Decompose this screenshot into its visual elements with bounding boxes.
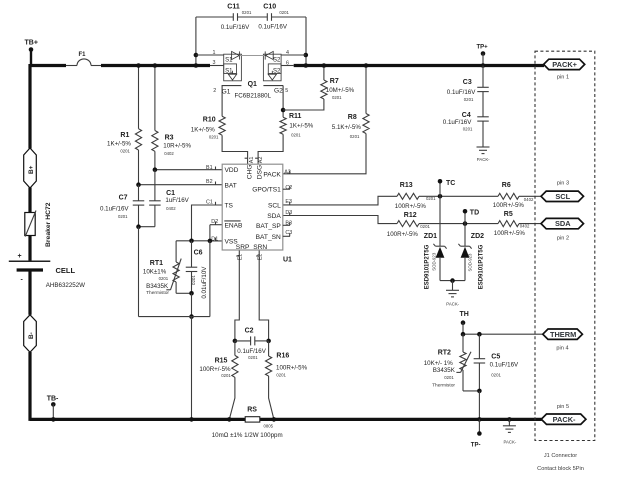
svg-text:C10: C10 (263, 4, 276, 11)
svg-text:GPO/TS1: GPO/TS1 (252, 186, 281, 193)
svg-text:2: 2 (213, 88, 216, 94)
svg-text:R1: R1 (120, 132, 129, 139)
svg-text:SRP: SRP (236, 244, 250, 251)
svg-text:100R+/-5%: 100R+/-5% (199, 366, 231, 373)
svg-text:C3: C3 (463, 79, 472, 86)
svg-text:pin 2: pin 2 (557, 235, 569, 241)
svg-text:100R+/-5%: 100R+/-5% (494, 230, 526, 237)
svg-text:R15: R15 (215, 358, 228, 365)
svg-text:S1: S1 (225, 68, 233, 74)
svg-text:SOD-923: SOD-923 (467, 253, 472, 272)
svg-text:10R+/-5%: 10R+/-5% (163, 143, 191, 150)
svg-text:C4: C4 (462, 112, 471, 119)
svg-text:10mΩ ±1% 1/2W 100ppm: 10mΩ ±1% 1/2W 100ppm (212, 432, 283, 439)
svg-text:PACK+: PACK+ (552, 60, 577, 69)
svg-text:pin 3: pin 3 (557, 180, 569, 186)
svg-text:R13: R13 (400, 182, 413, 189)
svg-text:R8: R8 (348, 114, 357, 121)
svg-text:ZD2: ZD2 (471, 233, 484, 240)
svg-text:RT1: RT1 (150, 260, 163, 267)
svg-text:R11: R11 (289, 113, 302, 120)
svg-text:PACK: PACK (263, 171, 281, 178)
svg-text:PACK-: PACK- (477, 157, 490, 162)
svg-text:0201: 0201 (248, 355, 258, 360)
svg-text:10K+/- 1%: 10K+/- 1% (424, 360, 454, 367)
svg-text:F1: F1 (79, 52, 87, 58)
svg-text:PACK-: PACK- (504, 439, 517, 444)
svg-text:B3435K: B3435K (433, 367, 456, 374)
svg-text:0201: 0201 (350, 134, 360, 139)
svg-text:0805: 0805 (264, 423, 274, 428)
svg-text:E1: E1 (237, 254, 243, 261)
svg-text:B2: B2 (206, 179, 213, 185)
svg-text:TC: TC (446, 180, 455, 187)
svg-text:Breaker HC72: Breaker HC72 (45, 202, 52, 247)
svg-text:0201: 0201 (291, 132, 301, 137)
svg-text:SCL: SCL (268, 202, 281, 209)
svg-text:0201: 0201 (242, 10, 252, 15)
svg-text:0201: 0201 (209, 134, 219, 139)
svg-text:C6: C6 (194, 249, 203, 256)
svg-text:SCL: SCL (555, 192, 570, 201)
svg-text:VDD: VDD (225, 167, 239, 174)
svg-text:D2: D2 (211, 219, 218, 225)
svg-text:S2: S2 (273, 57, 281, 63)
svg-text:Q1: Q1 (248, 81, 257, 88)
svg-text:R10: R10 (203, 117, 216, 124)
svg-text:0.1uF/16V: 0.1uF/16V (447, 89, 476, 96)
svg-text:C2: C2 (285, 185, 292, 191)
svg-text:0201: 0201 (159, 276, 169, 281)
svg-text:S2: S2 (273, 68, 281, 74)
svg-text:DSG: DSG (256, 165, 263, 179)
svg-text:R16: R16 (276, 353, 289, 360)
svg-text:A3: A3 (284, 170, 291, 176)
svg-text:Contact block 5Pin: Contact block 5Pin (537, 466, 584, 472)
svg-text:C2: C2 (245, 328, 254, 335)
svg-text:TB-: TB- (47, 396, 59, 403)
svg-text:0.1uF/16V: 0.1uF/16V (100, 206, 129, 213)
svg-text:S1: S1 (225, 57, 233, 63)
svg-text:E2: E2 (258, 254, 264, 261)
svg-text:0201: 0201 (221, 373, 231, 378)
svg-text:TP-: TP- (471, 443, 481, 449)
svg-text:B-: B- (28, 332, 35, 339)
svg-text:0.1uF/16V: 0.1uF/16V (221, 24, 250, 31)
svg-text:0201: 0201 (464, 97, 474, 102)
svg-text:TP+: TP+ (477, 45, 489, 51)
svg-text:G1: G1 (222, 88, 231, 95)
svg-text:A2: A2 (258, 157, 264, 164)
svg-text:0201: 0201 (463, 127, 473, 132)
svg-text:5.1K+/-5%: 5.1K+/-5% (332, 124, 362, 131)
svg-text:10K±1%: 10K±1% (143, 269, 167, 276)
svg-text:0201: 0201 (118, 214, 128, 219)
svg-text:R3: R3 (165, 135, 174, 142)
svg-text:AHB632252W: AHB632252W (46, 282, 85, 289)
svg-text:B+: B+ (28, 165, 35, 174)
svg-text:0.1uF/16V: 0.1uF/16V (490, 362, 519, 369)
svg-text:6: 6 (286, 61, 289, 67)
svg-text:0.01uF/10V: 0.01uF/10V (201, 266, 208, 299)
svg-text:0402: 0402 (524, 197, 534, 202)
svg-text:0201: 0201 (332, 95, 342, 100)
svg-text:SOD-923: SOD-923 (432, 252, 437, 271)
svg-text:3: 3 (213, 60, 216, 66)
svg-text:SRN: SRN (253, 244, 267, 251)
svg-text:FC6B21880L: FC6B21880L (235, 93, 272, 100)
svg-text:0.1uF/16V: 0.1uF/16V (443, 119, 472, 126)
svg-text:10M+/-5%: 10M+/-5% (326, 87, 355, 94)
svg-text:BAT_SN: BAT_SN (256, 234, 281, 241)
svg-text:R7: R7 (330, 78, 339, 85)
svg-text:1: 1 (213, 50, 216, 56)
svg-text:pin 4: pin 4 (556, 345, 568, 351)
svg-text:5: 5 (285, 88, 288, 94)
svg-text:PACK-: PACK- (553, 415, 576, 424)
svg-text:4: 4 (286, 50, 289, 56)
svg-text:A1: A1 (249, 157, 255, 164)
svg-text:C11: C11 (227, 4, 240, 11)
svg-text:1K+/-5%: 1K+/-5% (107, 140, 131, 147)
svg-text:ZD1: ZD1 (424, 233, 437, 240)
svg-text:TD: TD (470, 209, 479, 216)
svg-text:0201: 0201 (444, 375, 454, 380)
svg-text:THERM: THERM (550, 330, 576, 339)
svg-text:100R+/-5%: 100R+/-5% (493, 202, 525, 209)
svg-text:R6: R6 (502, 182, 511, 189)
svg-text:D1: D1 (211, 237, 218, 243)
svg-text:B3435K: B3435K (146, 283, 169, 290)
svg-text:RT2: RT2 (438, 350, 451, 357)
svg-text:C5: C5 (491, 354, 500, 361)
svg-text:0201: 0201 (120, 149, 130, 154)
svg-text:100R+/-5%: 100R+/-5% (395, 203, 427, 210)
svg-text:1uF/16V: 1uF/16V (165, 197, 189, 204)
svg-text:ESD9101P2T5G: ESD9101P2T5G (478, 244, 484, 289)
svg-text:PACK-: PACK- (446, 302, 459, 307)
svg-text:R12: R12 (404, 212, 417, 219)
svg-text:SDA: SDA (267, 213, 281, 220)
svg-text:C1: C1 (206, 199, 213, 205)
svg-text:SDA: SDA (555, 219, 571, 228)
svg-text:0201: 0201 (426, 196, 436, 201)
svg-text:CHG: CHG (247, 165, 254, 180)
svg-text:TS: TS (225, 203, 234, 210)
svg-text:Thermistor: Thermistor (432, 382, 455, 388)
svg-text:B3: B3 (285, 220, 292, 226)
svg-text:1K+/-5%: 1K+/-5% (289, 123, 313, 130)
svg-text:1K+/-5%: 1K+/-5% (191, 126, 215, 133)
svg-text:0201: 0201 (191, 275, 196, 285)
svg-text:J1 Connector: J1 Connector (544, 453, 577, 459)
svg-text:0201: 0201 (420, 224, 430, 229)
svg-text:ESD9101P2T5G: ESD9101P2T5G (424, 244, 430, 289)
svg-text:0402: 0402 (166, 206, 176, 211)
svg-text:BAT: BAT (225, 182, 237, 189)
svg-text:0201: 0201 (491, 372, 501, 377)
svg-text:BAT_SP: BAT_SP (256, 223, 281, 230)
svg-text:100R+/-5%: 100R+/-5% (276, 365, 308, 372)
svg-text:C3: C3 (285, 230, 292, 236)
svg-text:0201: 0201 (279, 10, 289, 15)
svg-text:RS: RS (247, 406, 257, 413)
svg-text:TB+: TB+ (25, 40, 38, 47)
svg-text:ENAB: ENAB (225, 222, 244, 229)
svg-text:Thermistor: Thermistor (146, 290, 169, 296)
svg-text:D3: D3 (285, 210, 292, 216)
svg-text:pin 1: pin 1 (557, 75, 569, 81)
svg-text:0201: 0201 (276, 372, 286, 377)
svg-text:E3: E3 (285, 199, 292, 205)
svg-text:0.1uF/16V: 0.1uF/16V (258, 23, 287, 30)
svg-text:R5: R5 (504, 211, 513, 218)
svg-text:100R+/-5%: 100R+/-5% (387, 231, 419, 238)
svg-text:+: + (18, 253, 22, 260)
svg-text:C7: C7 (119, 194, 128, 201)
svg-text:CELL: CELL (56, 266, 76, 275)
svg-text:0402: 0402 (520, 224, 530, 229)
svg-text:B1: B1 (206, 165, 213, 171)
svg-text:G2: G2 (274, 88, 283, 95)
svg-text:U1: U1 (283, 256, 292, 263)
svg-text:0402: 0402 (164, 151, 174, 156)
svg-text:pin 5: pin 5 (557, 404, 569, 410)
svg-text:TH: TH (460, 311, 469, 318)
